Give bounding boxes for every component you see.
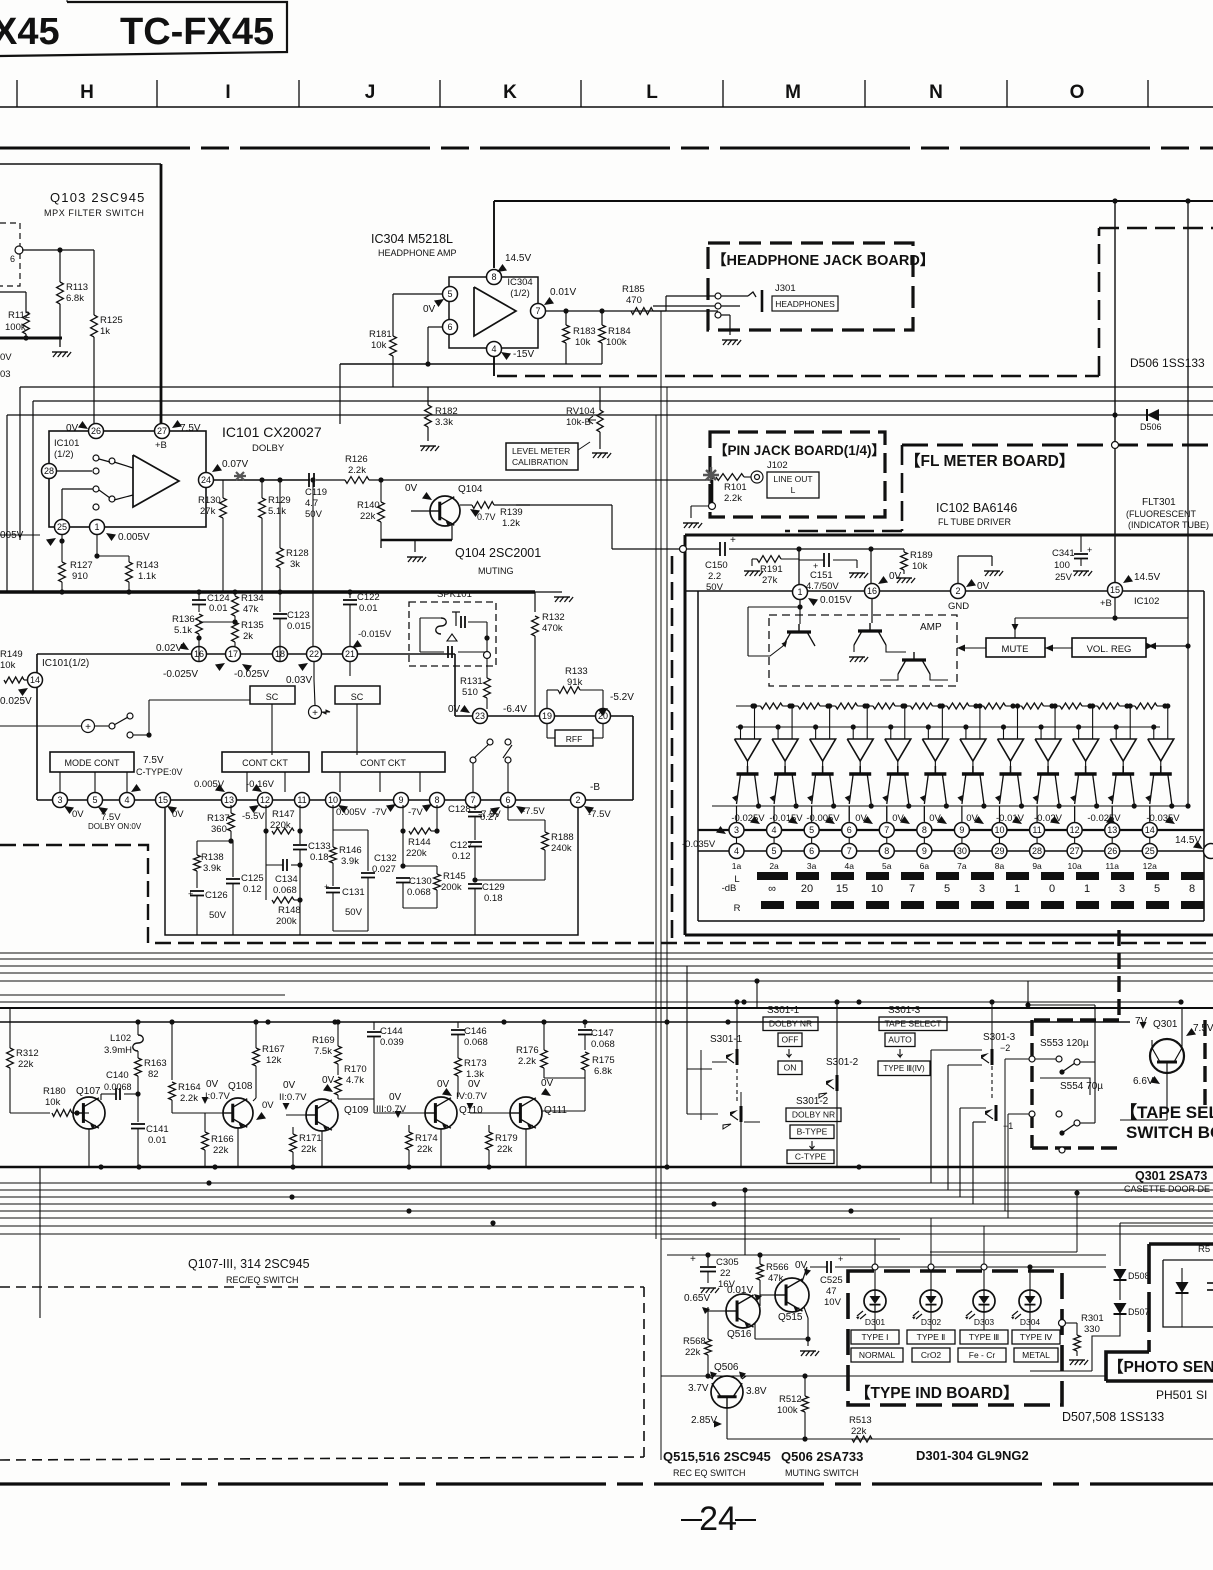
- svg-text:C305: C305: [716, 1257, 739, 1268]
- capacitor C130: [402, 831, 404, 866]
- svg-text:0.068: 0.068: [591, 1039, 615, 1050]
- wire Q108 base: [172, 1112, 223, 1114]
- FL pin 29 lower: [992, 844, 1007, 859]
- svg-text:R566: R566: [766, 1262, 789, 1273]
- wire bottom row: [727, 1438, 1213, 1440]
- svg-text:Q506 2SA733: Q506 2SA733: [781, 1449, 863, 1464]
- svg-text:MUTING SWITCH: MUTING SWITCH: [785, 1468, 859, 1478]
- driver transistor 11: [1112, 772, 1134, 775]
- svg-text:(FLUORESCENT: (FLUORESCENT: [1126, 509, 1197, 519]
- resistor R133: [546, 690, 548, 708]
- svg-text:3: 3: [979, 883, 985, 895]
- svg-text:28: 28: [44, 466, 54, 476]
- svg-text:ON: ON: [784, 1063, 797, 1073]
- driver transistor 6: [924, 772, 946, 775]
- pin 19: [540, 709, 555, 724]
- driver transistor 7: [962, 772, 984, 775]
- svg-text:PH501 SI: PH501 SI: [1156, 1388, 1207, 1402]
- svg-text:7.5k: 7.5k: [314, 1046, 332, 1057]
- summing node +: [309, 706, 322, 719]
- svg-text:CrO2: CrO2: [921, 1350, 942, 1360]
- svg-text:IC304: IC304: [507, 277, 532, 288]
- svg-text:100k: 100k: [5, 322, 26, 333]
- svg-text:-5.2V: -5.2V: [610, 692, 634, 703]
- svg-text:0.03V: 0.03V: [286, 675, 312, 686]
- svg-text:Q506: Q506: [714, 1362, 739, 1373]
- svg-text:Q109: Q109: [344, 1105, 369, 1116]
- summing node + left: [82, 720, 95, 733]
- filter cluster box: [165, 808, 578, 935]
- FL display rectangles L row: [757, 872, 788, 880]
- capacitor C129: [468, 883, 482, 885]
- svg-text:0.025V: 0.025V: [0, 696, 32, 707]
- svg-text:0V: 0V: [468, 1079, 481, 1090]
- resistor R148: [265, 865, 267, 900]
- svg-text:(INDICATOR TUBE): (INDICATOR TUBE): [1128, 520, 1209, 530]
- svg-text:0V: 0V: [437, 1079, 450, 1090]
- pin 12 bottom: [258, 793, 273, 808]
- pin 10 bottom: [326, 793, 341, 808]
- svg-text:5.1k: 5.1k: [268, 506, 286, 517]
- svg-text:TAPE SELECT: TAPE SELECT: [885, 1019, 942, 1029]
- svg-text:R130: R130: [198, 495, 221, 506]
- svg-text:0V: 0V: [206, 1079, 219, 1090]
- svg-text:29: 29: [994, 846, 1004, 856]
- resistor R312: [9, 1008, 11, 1048]
- wire +B down: [1114, 598, 1116, 618]
- capacitor C525: [826, 1261, 828, 1273]
- bus line collectors: [0, 1021, 1130, 1023]
- svg-text:O: O: [1070, 82, 1085, 103]
- svg-text:S301-2: S301-2: [796, 1096, 829, 1107]
- svg-text:10: 10: [871, 883, 883, 895]
- svg-text:14.5V: 14.5V: [505, 253, 531, 264]
- svg-text:10k: 10k: [0, 660, 16, 671]
- svg-text:R189: R189: [910, 550, 933, 561]
- pot RV104: [599, 387, 601, 410]
- svg-text:D507,508 1SS133: D507,508 1SS133: [1062, 1410, 1164, 1424]
- svg-text:470k: 470k: [542, 623, 563, 634]
- svg-text:3: 3: [734, 825, 739, 835]
- svg-text:-0.025V: -0.025V: [234, 669, 269, 680]
- svg-text:R184: R184: [608, 326, 631, 337]
- svg-text:4.7: 4.7: [305, 498, 318, 509]
- svg-text:11: 11: [1032, 825, 1041, 835]
- svg-text:-dB: -dB: [722, 883, 737, 894]
- svg-text:R134: R134: [241, 593, 264, 604]
- svg-text:−2: −2: [1000, 1043, 1010, 1053]
- driver transistor 8: [999, 772, 1021, 775]
- pin 1: [90, 520, 105, 535]
- capacitor C134: [265, 831, 267, 865]
- svg-text:510: 510: [462, 687, 478, 698]
- wires Q515 Q516: [759, 1293, 761, 1306]
- svg-text:12: 12: [260, 795, 270, 805]
- svg-text:6: 6: [505, 795, 510, 805]
- wire R138 branch: [197, 840, 231, 842]
- svg-text:0V: 0V: [405, 483, 418, 494]
- FL pin 5 lower: [767, 844, 782, 859]
- svg-text:S554 70µ: S554 70µ: [1060, 1081, 1103, 1092]
- resistor R176: [543, 1022, 545, 1050]
- FL pin 10: [992, 823, 1007, 838]
- svg-text:27: 27: [157, 426, 167, 436]
- svg-text:13: 13: [1107, 825, 1117, 835]
- svg-text:0.015V: 0.015V: [820, 595, 852, 606]
- svg-text:C123: C123: [287, 610, 310, 621]
- resistor R185: [631, 308, 653, 315]
- svg-text:R148: R148: [278, 905, 301, 916]
- svg-text:25: 25: [57, 522, 67, 532]
- svg-text:8a: 8a: [995, 861, 1005, 871]
- svg-text:28: 28: [1032, 846, 1042, 856]
- svg-text:47k: 47k: [243, 604, 259, 615]
- svg-text:27k: 27k: [762, 575, 778, 586]
- svg-text:27: 27: [1070, 846, 1080, 856]
- transistor Q515: [775, 1278, 809, 1312]
- resistor R169: [337, 1022, 339, 1046]
- ground Q103: [59, 338, 61, 347]
- buffer triangle 12: [1148, 739, 1174, 761]
- op-amp U-IC304 body: [449, 277, 538, 348]
- dashed box fragment left: [0, 223, 20, 286]
- svg-text:4a: 4a: [844, 861, 854, 871]
- svg-text:R144: R144: [408, 837, 431, 848]
- svg-text:13: 13: [224, 795, 234, 805]
- switch pair right: [470, 757, 476, 763]
- bus wire A: [20, 386, 1213, 388]
- pin 4: [487, 342, 502, 357]
- driver transistor 2: [774, 772, 796, 775]
- amp transistor 1: [787, 630, 811, 633]
- pin 2 bottom: [571, 793, 586, 808]
- svg-text:RFF: RFF: [566, 734, 583, 744]
- svg-text:3: 3: [57, 795, 62, 805]
- svg-text:0V: 0V: [423, 304, 436, 315]
- label -0.025V a: [215, 663, 225, 671]
- svg-text:B-TYPE: B-TYPE: [797, 1127, 828, 1137]
- resistor R135: [234, 616, 236, 622]
- wire R139 right: [516, 504, 612, 506]
- ground pin jack: [684, 523, 688, 528]
- svg-text:6: 6: [809, 846, 814, 856]
- svg-text:11: 11: [297, 795, 306, 805]
- svg-text:IC102: IC102: [1134, 596, 1159, 607]
- svg-text:R131: R131: [460, 676, 483, 687]
- svg-text:22k: 22k: [851, 1426, 867, 1437]
- vertical stub x40: [39, 1167, 41, 1318]
- svg-text:7: 7: [847, 846, 852, 856]
- label 0.01V: [544, 297, 554, 305]
- resistor R134: [234, 592, 236, 596]
- switch S301-1 lower: [740, 1106, 743, 1122]
- svg-text:FLT301: FLT301: [1142, 497, 1176, 508]
- svg-text:R164: R164: [178, 1082, 201, 1093]
- svg-text:6.8k: 6.8k: [66, 293, 84, 304]
- svg-text:22k: 22k: [497, 1144, 513, 1155]
- buffer triangle 1: [735, 739, 761, 761]
- pin 16 FL: [865, 584, 880, 599]
- svg-text:Q515,516 2SC945: Q515,516 2SC945: [663, 1449, 771, 1464]
- svg-text:5: 5: [92, 795, 97, 805]
- capacitor C132: [333, 829, 368, 831]
- wire pin1 into amp: [799, 600, 801, 607]
- svg-text:IC304 M5218L: IC304 M5218L: [371, 232, 453, 246]
- wire type ind right: [1059, 1320, 1066, 1327]
- svg-text:0V: 0V: [889, 571, 902, 582]
- svg-text:0.07V: 0.07V: [222, 459, 248, 470]
- svg-text:5: 5: [944, 883, 950, 895]
- FL pin 4 lower: [729, 844, 744, 859]
- svg-text:I:0.7V: I:0.7V: [205, 1091, 230, 1102]
- wire R136 R135 link: [199, 621, 235, 623]
- svg-text:03: 03: [0, 369, 11, 380]
- svg-text:3.7V: 3.7V: [688, 1383, 709, 1394]
- svg-text:10: 10: [328, 795, 338, 805]
- svg-text:R146: R146: [339, 845, 362, 856]
- svg-text:K: K: [503, 82, 517, 103]
- resistor R101: [709, 474, 714, 479]
- resistor R163: [135, 1058, 142, 1076]
- svg-text:MODE CONT: MODE CONT: [65, 758, 121, 768]
- REC EQ dashed box: [0, 1286, 644, 1288]
- svg-text:12: 12: [1070, 825, 1080, 835]
- capacitor C122: [349, 592, 351, 598]
- svg-text:100: 100: [1054, 560, 1070, 571]
- op-amp IC101 triangle: [133, 455, 179, 507]
- svg-text:91k: 91k: [567, 677, 583, 688]
- svg-text:+: +: [85, 722, 91, 733]
- svg-text:25: 25: [1145, 846, 1155, 856]
- svg-text:R127: R127: [70, 560, 93, 571]
- svg-text:0.01: 0.01: [359, 603, 378, 614]
- svg-text:+B: +B: [1100, 598, 1112, 609]
- tape select board dashed border: [1117, 930, 1120, 1020]
- switch contacts IC101 a: [57, 470, 92, 472]
- svg-text:M: M: [785, 82, 801, 103]
- label -0.025V b: [242, 664, 252, 672]
- svg-text:3.8V: 3.8V: [746, 1386, 767, 1397]
- driver transistor 3: [812, 772, 834, 775]
- resistor R147: [265, 805, 267, 831]
- svg-text:MPX FILTER SWITCH: MPX FILTER SWITCH: [44, 208, 145, 218]
- svg-text:50V: 50V: [209, 910, 227, 921]
- wire pin1 up: [798, 549, 800, 584]
- svg-text:∞: ∞: [768, 883, 776, 895]
- capacitor C128: [474, 805, 476, 810]
- svg-text:J301: J301: [775, 283, 796, 294]
- resistor R131: [484, 678, 491, 698]
- wire Q107 emitter etc: [88, 1129, 90, 1167]
- svg-text:16: 16: [867, 586, 877, 596]
- pin 6 bottom: [501, 793, 516, 808]
- wire right vertical to volreg: [1187, 201, 1189, 618]
- svg-text:R113: R113: [66, 282, 88, 293]
- buffer triangle 3: [810, 739, 836, 761]
- wires Q301: [1151, 1040, 1153, 1048]
- transistor Q104: [430, 496, 460, 526]
- svg-text:360: 360: [211, 824, 227, 835]
- resistor R139: [460, 504, 472, 506]
- buffer triangle 2: [772, 739, 798, 761]
- svg-text:10: 10: [994, 825, 1004, 835]
- svg-text:6a: 6a: [920, 861, 930, 871]
- svg-text:MUTING: MUTING: [478, 566, 514, 576]
- svg-text:TYPE Ⅳ: TYPE Ⅳ: [1020, 1332, 1054, 1342]
- ground RV104: [593, 453, 597, 458]
- svg-text:0.068: 0.068: [273, 885, 297, 896]
- svg-text:100k: 100k: [606, 337, 627, 348]
- node 6: [15, 246, 23, 254]
- resistor R166: [204, 1113, 206, 1132]
- svg-text:50V: 50V: [305, 509, 323, 520]
- svg-text:+: +: [324, 882, 329, 892]
- svg-text:C133: C133: [308, 841, 331, 852]
- svg-text:4: 4: [734, 846, 739, 856]
- pin 15 bottom: [156, 793, 171, 808]
- svg-text:7: 7: [884, 825, 889, 835]
- svg-text:-6.4V: -6.4V: [503, 704, 527, 715]
- svg-text:7: 7: [909, 883, 915, 895]
- svg-text:24: 24: [201, 475, 211, 485]
- svg-text:7: 7: [535, 306, 540, 316]
- svg-text:GND: GND: [948, 601, 969, 612]
- svg-text:R176: R176: [516, 1045, 539, 1056]
- IC101 lower box: [37, 653, 191, 655]
- HEADPHONE JACK BOARD dashed box: [708, 243, 913, 330]
- svg-text:14: 14: [1145, 825, 1155, 835]
- svg-text:50V: 50V: [706, 582, 724, 593]
- wires pins to mode cont: [59, 772, 61, 792]
- svg-text:R568: R568: [683, 1336, 706, 1347]
- svg-text:C129: C129: [482, 882, 505, 893]
- svg-text:IC101: IC101: [54, 438, 79, 449]
- svg-text:REC EQ SWITCH: REC EQ SWITCH: [673, 1468, 746, 1478]
- pin 3 bottom: [53, 793, 68, 808]
- svg-text:HEADPHONE AMP: HEADPHONE AMP: [378, 248, 457, 258]
- svg-text:AUTO: AUTO: [888, 1035, 912, 1045]
- photo sensor inner box: [1163, 1259, 1213, 1261]
- svg-text:R181: R181: [369, 329, 392, 340]
- resistor R184: [601, 311, 603, 325]
- buffer triangle 9: [1035, 739, 1061, 761]
- svg-text:10k: 10k: [912, 561, 928, 572]
- FL pin 11: [1030, 823, 1045, 838]
- svg-text:DOLBY ON:0V: DOLBY ON:0V: [88, 822, 142, 831]
- FL pin 8: [917, 823, 932, 838]
- resistor R127: [61, 534, 63, 562]
- FL pin 7 lower: [842, 844, 857, 859]
- buffer triangle 4: [847, 739, 873, 761]
- resistor R175: [582, 1052, 589, 1070]
- resistor R138: [196, 841, 198, 855]
- svg-text:C141: C141: [146, 1124, 169, 1135]
- svg-text:C147: C147: [591, 1028, 614, 1039]
- svg-text:8: 8: [491, 272, 496, 282]
- capacitor C133: [299, 805, 301, 844]
- svg-text:Q104 2SC2001: Q104 2SC2001: [455, 546, 541, 560]
- svg-text:0V: 0V: [541, 1078, 554, 1089]
- capacitor C151: [823, 553, 825, 567]
- svg-text:0.0068: 0.0068: [104, 1082, 132, 1092]
- svg-text:-7V: -7V: [408, 807, 423, 818]
- svg-text:R169: R169: [312, 1035, 335, 1046]
- pin 8 bottom: [430, 793, 445, 808]
- svg-text:22k: 22k: [685, 1347, 701, 1358]
- svg-text:R173: R173: [464, 1058, 487, 1069]
- title box TC-FX45: [0, 2, 287, 56]
- svg-text:C122: C122: [357, 592, 380, 603]
- diode D507: [1114, 1303, 1127, 1314]
- svg-text:3a: 3a: [807, 861, 817, 871]
- svg-text:-0.025V: -0.025V: [731, 813, 765, 824]
- resistor R128: [279, 527, 281, 548]
- svg-text:IC101 CX20027: IC101 CX20027: [222, 424, 322, 440]
- capacitor C141: [137, 1094, 139, 1122]
- svg-text:25V: 25V: [1055, 572, 1073, 583]
- svg-text:R140: R140: [357, 500, 380, 511]
- svg-text:C150: C150: [705, 560, 728, 571]
- svg-text:-7V: -7V: [372, 807, 387, 818]
- pins row 16 17 18 22 21: [192, 647, 207, 662]
- FL board outer thick box: [685, 534, 1213, 537]
- svg-text:3.9k: 3.9k: [341, 856, 359, 867]
- capacitor C147: [584, 1022, 586, 1028]
- pin 6: [443, 320, 458, 335]
- capacitor C140: [115, 1088, 117, 1100]
- svg-text:6: 6: [847, 825, 852, 835]
- label 0V pin16: [878, 576, 888, 584]
- wire pin6 left: [428, 326, 442, 328]
- photo sensor board outline: [1149, 1242, 1213, 1246]
- svg-text:Q108: Q108: [228, 1081, 253, 1092]
- svg-text:R182: R182: [435, 406, 458, 417]
- resistor R143: [96, 534, 98, 556]
- svg-text:R: R: [734, 903, 741, 914]
- resistor R174: [408, 1125, 410, 1132]
- svg-text:SPK101: SPK101: [437, 589, 472, 600]
- wire pin24 output: [214, 479, 310, 481]
- resistor R189: [901, 552, 908, 570]
- capacitor C125: [232, 841, 234, 877]
- wires S553 left: [1005, 1058, 1029, 1060]
- svg-text:C127: C127: [450, 840, 473, 851]
- resistor R171: [292, 1127, 294, 1134]
- pin 8: [487, 270, 502, 285]
- led D303: [973, 1290, 995, 1312]
- svg-text:R301: R301: [1081, 1313, 1104, 1324]
- svg-text:-0.015V: -0.015V: [769, 813, 803, 824]
- led D302: [920, 1290, 942, 1312]
- svg-text:1: 1: [1084, 883, 1090, 895]
- svg-text:C131: C131: [342, 887, 365, 898]
- svg-text:0.7V: 0.7V: [477, 512, 496, 522]
- svg-text:0.01V: 0.01V: [550, 287, 576, 298]
- svg-text:2a: 2a: [769, 861, 779, 871]
- driver transistor 5: [887, 772, 909, 775]
- wire pin16 into amp: [871, 599, 873, 623]
- capacitor C146: [457, 1022, 459, 1028]
- photo diode: [1176, 1282, 1189, 1293]
- svg-text:5: 5: [447, 289, 452, 299]
- svg-text:5: 5: [1154, 883, 1160, 895]
- svg-text:R5: R5: [1198, 1244, 1210, 1255]
- svg-text:9: 9: [398, 795, 403, 805]
- svg-text:HEADPHONES: HEADPHONES: [775, 299, 835, 309]
- svg-text:R145: R145: [443, 871, 466, 882]
- pin 23: [473, 709, 488, 724]
- wire verticals left of S301: [655, 415, 657, 1239]
